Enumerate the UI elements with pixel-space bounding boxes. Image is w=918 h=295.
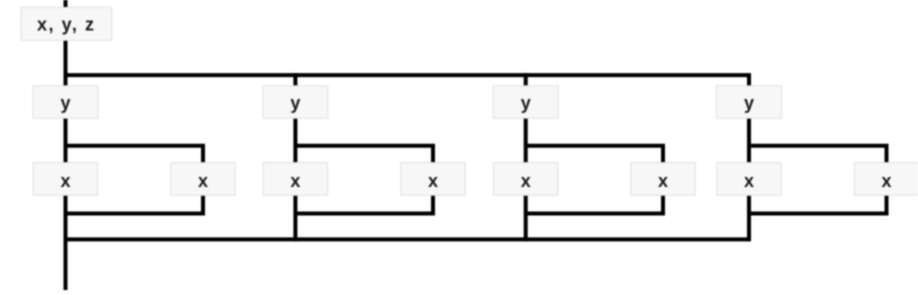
wire: bottom horizontal bus bbox=[66, 237, 750, 241]
svg-text:x: x bbox=[60, 171, 70, 191]
svg-text:x, y, z: x, y, z bbox=[37, 14, 94, 34]
svg-text:y: y bbox=[60, 93, 70, 113]
wire: top horizontal bus bbox=[66, 73, 750, 77]
wire: branch 2 inner loop bbox=[295, 146, 433, 214]
node x1b bbox=[171, 163, 235, 196]
wire: branch 1 inner loop bbox=[66, 146, 204, 214]
node y2 bbox=[263, 86, 328, 118]
wire: branch 2 vertical bbox=[293, 73, 297, 241]
svg-text:x: x bbox=[428, 171, 438, 191]
wire: branch 4 inner loop bbox=[749, 146, 887, 214]
svg-text:x: x bbox=[290, 171, 300, 191]
node x,y,z (root) bbox=[21, 7, 112, 40]
svg-text:y: y bbox=[521, 93, 531, 113]
node x1a bbox=[33, 163, 97, 196]
node x2b bbox=[401, 163, 465, 196]
node x2a bbox=[263, 163, 327, 196]
node y3 bbox=[493, 86, 558, 118]
svg-text:x: x bbox=[521, 171, 531, 191]
node x4b bbox=[854, 163, 918, 196]
node y4 bbox=[717, 86, 782, 118]
wire: branch 4 vertical bbox=[747, 73, 751, 241]
node y1 bbox=[33, 86, 98, 118]
node x4a bbox=[717, 163, 781, 196]
svg-text:y: y bbox=[290, 93, 300, 113]
svg-text:x: x bbox=[658, 171, 668, 191]
svg-text:y: y bbox=[744, 93, 754, 113]
svg-text:x: x bbox=[881, 171, 891, 191]
svg-text:x: x bbox=[198, 171, 208, 191]
wire: main trunk vertical bbox=[64, 0, 68, 290]
node x3a bbox=[494, 163, 558, 196]
svg-text:x: x bbox=[744, 171, 754, 191]
wire: branch 3 inner loop bbox=[526, 146, 663, 214]
wire: branch 3 vertical bbox=[524, 73, 528, 241]
node x3b bbox=[631, 163, 695, 196]
